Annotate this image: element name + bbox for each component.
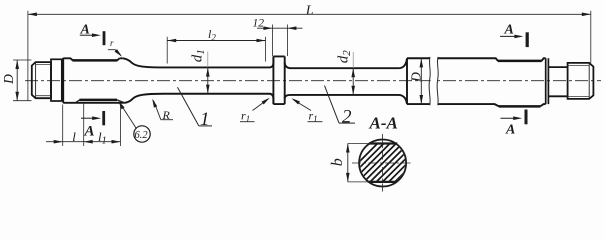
- section vertical centerline: [382, 134, 384, 192]
- svg-text:2: 2: [342, 106, 352, 127]
- break wavy line left: [429, 57, 430, 105]
- roughness leader: [120, 103, 137, 129]
- dimension D left extension ticks: [13, 60, 32, 101]
- dimension l and l1 line: [46, 141, 121, 143]
- taper fillet R top edge: [123, 58, 163, 67]
- svg-text:L: L: [305, 4, 314, 19]
- break wavy line right: [437, 57, 438, 105]
- svg-text:r: r: [110, 38, 114, 48]
- roughness callout 6.2 circle: [134, 126, 150, 142]
- svg-text:A-A: A-A: [369, 114, 398, 133]
- break gap blank: [431, 57, 437, 108]
- left thread runout ring: [51, 59, 62, 101]
- svg-text:b: b: [329, 158, 346, 166]
- dimension 12 lines: [257, 27, 303, 29]
- section marker A bottom-left: [81, 117, 97, 119]
- dimension l l1 extension lines: [63, 103, 121, 146]
- left thread stub M-end: [32, 62, 51, 98]
- svg-text:D: D: [1, 74, 16, 85]
- dimension D left line: [16, 60, 18, 101]
- dimension b extension lines: [348, 144, 369, 182]
- section marker A top-right: [500, 35, 518, 37]
- d1 neck section bottom edge: [163, 94, 273, 104]
- left body bottom band slants: [76, 100, 125, 103]
- right neck between body and thread: [548, 67, 567, 96]
- right body end face: [546, 58, 549, 104]
- section marker A top-left: [80, 34, 96, 36]
- section flat top chord: [369, 142, 398, 144]
- taper fillet R bottom edge: [125, 94, 163, 103]
- dimension D right line: [420, 58, 422, 104]
- svg-text:d2: d2: [336, 50, 354, 64]
- svg-text:l2: l2: [208, 27, 216, 43]
- svg-text:A: A: [505, 123, 515, 138]
- svg-text:l: l: [72, 129, 76, 144]
- d2 neck section bottom edge: [285, 95, 407, 104]
- dimension d1 line: [207, 52, 209, 68]
- dimension 12 extension lines: [272, 25, 287, 57]
- svg-text:1: 1: [200, 109, 210, 130]
- dimension l2 line: [167, 40, 265, 42]
- d1 neck section top edge: [163, 56, 273, 67]
- svg-text:12: 12: [253, 17, 265, 29]
- left thread chamfer line: [35, 62, 37, 98]
- svg-text:A: A: [84, 124, 95, 140]
- right body outline: [407, 58, 546, 106]
- svg-text:A: A: [80, 23, 90, 38]
- dimension b line: [347, 144, 349, 182]
- dimension d2 line: [352, 52, 354, 68]
- left body journal outline: [63, 58, 124, 103]
- section hatching: [340, 144, 440, 182]
- dimension L line: [28, 13, 591, 15]
- right thread chamfer line: [588, 63, 590, 99]
- section horizontal centerline: [352, 162, 413, 164]
- section flat bottom chord: [368, 181, 396, 183]
- left body bottom relieved band: [79, 99, 117, 102]
- section marker A bottom-right: [501, 117, 518, 119]
- svg-text:6.2: 6.2: [135, 130, 149, 141]
- svg-text:D: D: [409, 72, 424, 83]
- left thread minor-dia lines: [36, 65, 51, 96]
- section circle outline: [359, 140, 406, 187]
- right body top relieved band: [498, 60, 542, 63]
- right body bottom relieved band: [499, 105, 541, 108]
- collar flange: [273, 56, 284, 104]
- left body top relieved band: [73, 59, 118, 62]
- right thread stub: [568, 63, 594, 99]
- svg-text:l1: l1: [98, 129, 107, 147]
- dimension L extension lines: [28, 11, 591, 101]
- dimension l2 extension lines: [167, 37, 265, 64]
- svg-text:d1: d1: [190, 49, 208, 62]
- centerline main axis: [25, 80, 601, 82]
- right thread minor-dia lines: [568, 66, 590, 97]
- svg-text:A: A: [504, 23, 514, 38]
- d2 neck section top edge: [285, 58, 407, 68]
